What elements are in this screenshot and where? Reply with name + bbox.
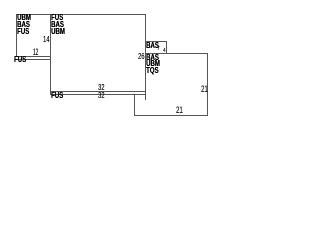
label FUS in band — [51, 93, 63, 100]
dimension 14 — [43, 36, 49, 43]
wire band bottom line — [50, 94, 147, 95]
wire dimension line under left box — [15, 59, 51, 60]
wire top edge of left box and wide box — [16, 14, 146, 15]
wire right edge of right box — [207, 53, 208, 116]
dimension 21 bottom edge — [176, 107, 183, 114]
wire bottom edge of right box — [134, 115, 208, 116]
dimension 12 — [33, 49, 38, 56]
wire small BAS box top edge — [145, 41, 166, 42]
wire left edge of right box (lower part) — [134, 94, 135, 116]
dimension 32 above band — [98, 84, 104, 91]
wire shared vertical edge between left box and wide box — [50, 14, 51, 95]
wire bottom edge of left box — [16, 56, 51, 57]
wire top edge of right box — [145, 53, 208, 54]
label stack left box: UBM BAS FUS — [17, 15, 31, 35]
label small box: BAS — [146, 43, 159, 50]
dimension 7 — [157, 47, 160, 53]
wire small BAS box right edge — [166, 41, 167, 53]
wire band top line (bottom of wide box) — [50, 91, 147, 92]
wire left edge of left box — [16, 14, 17, 57]
label stack right box: BAS UBM TQS — [146, 55, 160, 75]
wire right edge of wide box — [145, 14, 146, 100]
dimension 32 in band — [98, 92, 104, 99]
label stack wide box: FUS BAS UBM — [51, 15, 65, 35]
label FUS below left box — [14, 57, 26, 64]
dimension 4 — [163, 49, 166, 55]
dimension 21 right edge — [201, 86, 208, 93]
dimension 26 — [138, 53, 144, 60]
